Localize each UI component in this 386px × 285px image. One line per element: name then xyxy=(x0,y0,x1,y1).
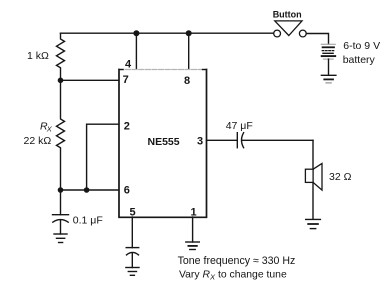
svg-text:5: 5 xyxy=(130,207,136,219)
svg-text:8: 8 xyxy=(184,75,190,87)
svg-text:22 kΩ: 22 kΩ xyxy=(24,135,52,147)
svg-text:6: 6 xyxy=(124,185,130,197)
svg-text:1: 1 xyxy=(191,207,197,219)
svg-text:Vary RX to change tune: Vary RX to change tune xyxy=(179,269,287,281)
svg-text:32 Ω: 32 Ω xyxy=(329,171,352,183)
svg-text:X: X xyxy=(46,125,53,134)
svg-text:battery: battery xyxy=(343,54,376,66)
svg-text:0.1 μF: 0.1 μF xyxy=(73,214,103,226)
svg-text:2: 2 xyxy=(124,121,130,133)
svg-text:6-to 9 V: 6-to 9 V xyxy=(343,40,380,52)
svg-text:NE555: NE555 xyxy=(148,136,180,148)
svg-text:Tone frequency ≈ 330 Hz: Tone frequency ≈ 330 Hz xyxy=(178,255,296,267)
svg-text:7: 7 xyxy=(123,74,129,86)
svg-text:47 μF: 47 μF xyxy=(226,120,253,132)
svg-text:1 kΩ: 1 kΩ xyxy=(27,50,49,62)
svg-text:4: 4 xyxy=(125,58,132,70)
svg-text:3: 3 xyxy=(197,136,203,148)
svg-text:Button: Button xyxy=(273,10,302,20)
